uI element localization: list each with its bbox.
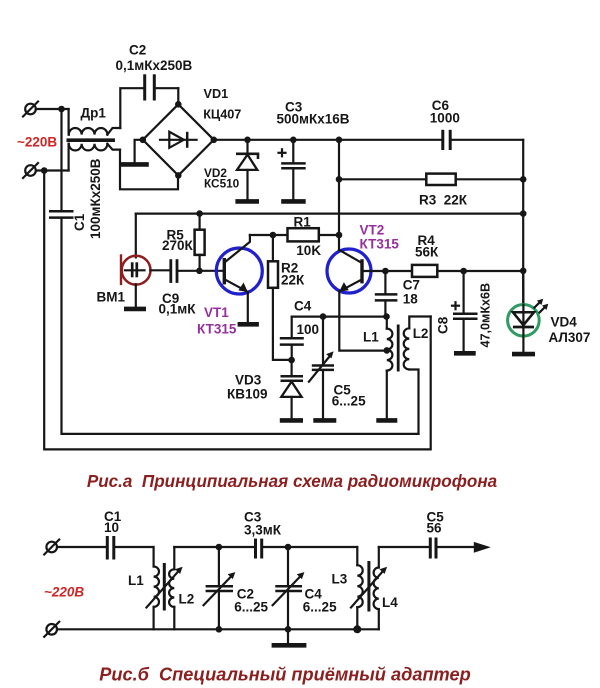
- LED VD4: [508, 271, 549, 351]
- node L3 bottom: [353, 625, 361, 633]
- svg-text:1000: 1000: [430, 111, 460, 126]
- microphone BM1: [121, 254, 151, 285]
- node B (junction at bottom terminal): [41, 167, 48, 174]
- wire terminal X2: [36, 169, 69, 171]
- wire VT1 collector to node: [250, 234, 273, 236]
- transistor VT2: [327, 249, 371, 293]
- resistor R2: [268, 235, 292, 360]
- svg-text:VT1: VT1: [204, 305, 229, 320]
- svg-text:100мКх250В: 100мКх250В: [88, 158, 103, 239]
- terminal X2b: [44, 622, 59, 637]
- node C6 left branch: [336, 137, 343, 144]
- node L1 top: [383, 313, 390, 320]
- capacitor C2: [145, 74, 179, 100]
- choke Dr1 bottom winding: [69, 144, 120, 171]
- svg-text:R3 22К: R3 22К: [419, 193, 468, 208]
- wire bridge right to C6 node: [214, 139, 441, 141]
- node L1 center tap: [384, 347, 391, 354]
- tuning arrow L1b/L2b: [147, 567, 183, 608]
- ground fig b: [272, 629, 307, 645]
- svg-text:6...25: 6...25: [234, 600, 268, 615]
- bottom wire b: [57, 628, 379, 630]
- right supply rail: [522, 140, 524, 305]
- svg-text:10K: 10K: [296, 243, 321, 258]
- trimmer capacitor C5: [309, 317, 336, 421]
- svg-text:3,3мК: 3,3мК: [244, 523, 282, 538]
- ground VT1 emitter: [238, 322, 259, 327]
- capacitor C9: [150, 259, 222, 283]
- svg-text:47,0мКх6В: 47,0мКх6В: [479, 283, 493, 348]
- node base VT1: [196, 268, 203, 275]
- svg-text:C7: C7: [403, 278, 420, 293]
- capacitor C7: [375, 271, 398, 317]
- inductor L2: [404, 317, 431, 434]
- svg-text:L1: L1: [363, 330, 379, 345]
- inner bottom feedback wire: [62, 219, 419, 434]
- transistor VT1: [216, 235, 262, 294]
- svg-text:18: 18: [403, 292, 419, 307]
- svg-text:10: 10: [104, 520, 119, 535]
- svg-text:L1: L1: [128, 573, 144, 588]
- inductor L3: [357, 565, 362, 629]
- varicap VD3: [280, 360, 303, 420]
- node C4b bottom: [285, 626, 292, 633]
- svg-text:Рис.б Специальный приёмный ад: Рис.б Специальный приёмный адаптер: [99, 665, 470, 685]
- svg-text:500мКх16В: 500мКх16В: [277, 112, 350, 127]
- svg-text:КТ315: КТ315: [360, 237, 400, 252]
- svg-text:L2: L2: [179, 592, 195, 607]
- capacitor C4: [280, 317, 304, 360]
- inductor L2b: [169, 547, 174, 629]
- wire rail corner down to microphone: [135, 214, 137, 258]
- terminal X1b: [44, 540, 59, 555]
- ground under VD4: [512, 352, 535, 357]
- inductor L4: [374, 547, 379, 629]
- top wire L2b to C3b: [174, 546, 254, 548]
- top wire L4 to C5b: [379, 546, 430, 548]
- resistor R3: [339, 174, 523, 185]
- core b left: [163, 563, 166, 611]
- svg-text:~220В: ~220В: [17, 135, 57, 150]
- ground under BM1: [124, 284, 146, 309]
- node rail R4 row: [520, 268, 527, 275]
- core b right: [367, 561, 370, 612]
- wire to C1b: [57, 546, 106, 548]
- node bridge bottom: [175, 172, 182, 179]
- svg-text:Рис.а Принципиальная схема ра: Рис.а Принципиальная схема радиомикрофон…: [87, 472, 497, 491]
- electrolytic C3: [279, 140, 306, 202]
- transformer core a: [397, 325, 400, 372]
- node rail mid: [520, 210, 527, 217]
- inductor L1b: [154, 567, 159, 630]
- wire terminal X1 to choke: [36, 108, 69, 110]
- svg-text:R1: R1: [294, 214, 312, 229]
- svg-text:VT2: VT2: [360, 223, 385, 238]
- wire choke top to C2: [120, 88, 143, 128]
- node R3 left: [336, 176, 343, 183]
- inductor L1: [387, 317, 393, 418]
- svg-text:56: 56: [427, 521, 443, 536]
- ground under L1: [376, 418, 397, 423]
- node bridge top: [175, 101, 182, 108]
- node bridge right: [211, 137, 218, 144]
- node VT2 base: [382, 268, 389, 275]
- svg-text:АЛ307: АЛ307: [549, 330, 591, 345]
- svg-text:КВ109: КВ109: [227, 387, 268, 402]
- svg-text:VD1: VD1: [204, 87, 229, 101]
- svg-text:100: 100: [297, 322, 320, 337]
- trimmer capacitor C2b: [204, 547, 236, 629]
- svg-text:ВМ1: ВМ1: [97, 290, 126, 305]
- node C5 top: [320, 313, 327, 320]
- zener diode VD2: [235, 140, 259, 202]
- wire top terminal node down to C1: [60, 109, 62, 210]
- vertical bus from bridge output down to VT2 collector: [338, 140, 340, 250]
- svg-text:56К: 56К: [415, 245, 439, 260]
- node C8 top: [460, 268, 467, 275]
- node VD3 top: [288, 357, 295, 364]
- resistor R4: [385, 265, 523, 277]
- svg-text:Др1: Др1: [81, 106, 107, 121]
- node A (junction at top terminal): [58, 106, 65, 113]
- svg-text:C2: C2: [129, 43, 146, 58]
- wire C2 down to bridge top: [177, 88, 179, 104]
- electrolytic C8: [452, 271, 478, 353]
- svg-text:КТ315: КТ315: [197, 322, 237, 337]
- svg-text:L2: L2: [413, 326, 429, 341]
- choke Dr1 top winding: [69, 109, 121, 135]
- node VT1 collector: [270, 232, 277, 239]
- svg-text:L4: L4: [382, 595, 398, 610]
- trimmer capacitor C4b: [273, 547, 305, 629]
- node C2b top: [216, 544, 223, 551]
- wire VT1 emitter to ground: [247, 292, 249, 322]
- node C4b top: [285, 544, 292, 551]
- svg-text:~220В: ~220В: [44, 585, 84, 600]
- svg-text:L3: L3: [332, 572, 348, 587]
- svg-text:C1: C1: [72, 213, 87, 231]
- output arrow: [474, 542, 491, 553]
- node C3 top: [290, 137, 297, 144]
- node VD2 top: [244, 137, 251, 144]
- bridge rectifier VD1: [143, 104, 214, 175]
- node R1 right / VT2 collector: [336, 232, 343, 239]
- wire VT2 base: [362, 270, 385, 272]
- node bridge left: [140, 137, 147, 144]
- capacitor C1: [49, 211, 74, 217]
- svg-text:6...25: 6...25: [303, 600, 337, 615]
- svg-text:VD4: VD4: [551, 315, 578, 330]
- svg-text:6...25: 6...25: [332, 394, 366, 409]
- horizontal mid rail: [136, 213, 523, 215]
- node R3 right on rail: [520, 176, 527, 183]
- svg-text:22К: 22К: [281, 273, 305, 288]
- resistor R1: [273, 228, 339, 241]
- choke Dr1 core: [67, 138, 116, 142]
- terminal X2 (bottom mains input): [23, 163, 38, 178]
- wire choke bottom to bridge bottom: [120, 150, 178, 190]
- svg-text:270К: 270К: [162, 238, 194, 253]
- wire down to L1b: [153, 547, 155, 567]
- svg-text:VD3: VD3: [235, 373, 262, 388]
- wire VT2 emitter to L1 tap: [339, 292, 386, 351]
- node R5 top: [196, 210, 203, 217]
- svg-text:КЦ407: КЦ407: [203, 108, 241, 122]
- svg-text:C8: C8: [436, 316, 451, 334]
- capacitor C1b: [107, 536, 153, 560]
- tuning arrow L3/L4: [351, 567, 387, 608]
- svg-text:0,1мКх250В: 0,1мКх250В: [116, 58, 193, 73]
- ground at bridge left: [121, 140, 149, 165]
- svg-text:C4: C4: [294, 299, 312, 314]
- tank node wire: [292, 316, 387, 318]
- capacitor C3b: [256, 539, 358, 559]
- capacitor C6: [443, 130, 523, 150]
- capacitor C5b: [430, 538, 474, 559]
- terminal X1 (top mains input): [23, 102, 38, 117]
- svg-text:КС510: КС510: [204, 176, 240, 190]
- wire down to L3: [356, 547, 358, 565]
- resistor R5: [195, 214, 205, 271]
- node C2b bottom: [216, 626, 223, 633]
- svg-text:0,1мК: 0,1мК: [159, 302, 197, 317]
- outer bottom feedback wire: [44, 171, 431, 450]
